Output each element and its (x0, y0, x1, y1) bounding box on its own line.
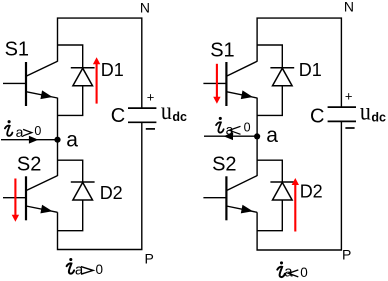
svg-text:0: 0 (96, 262, 104, 277)
wire D2 branch top (left) (58, 160, 83, 182)
diode D2 (left) anode triangle (73, 182, 93, 200)
svg-text:S2: S2 (212, 154, 236, 176)
svg-text:C: C (111, 105, 125, 127)
svg-text:a: a (75, 261, 84, 278)
diode D1 (left) cathode bar (71, 67, 95, 69)
svg-text:+: + (147, 90, 155, 105)
capacitor polarity − (345, 127, 354, 129)
current arrow through D1 (red, up) (96, 63, 98, 103)
diode D2 (left) cathode bar (71, 181, 95, 183)
diode D1 (right) cathode bar (270, 67, 294, 69)
svg-text:dc: dc (371, 110, 386, 124)
transistor S1 (right) emitter arrowhead (241, 90, 253, 99)
svg-text:a: a (66, 129, 78, 152)
transistor S2 (left) emitter lead (26, 206, 58, 212)
node a junction dot (right) (254, 133, 260, 139)
capacitor plate (top) (128, 107, 156, 109)
svg-text:dc: dc (172, 110, 187, 124)
svg-text:C: C (310, 105, 324, 127)
wire D1 branch bottom (left) (58, 86, 83, 116)
phase current arrow i_a (right, pointing left away from node a) (204, 135, 256, 137)
svg-text:D2: D2 (300, 181, 323, 201)
transistor S2 (right) emitter lead (226, 206, 257, 212)
svg-text:N: N (344, 0, 354, 15)
transistor S1 (left) base lead (3, 82, 26, 84)
capacitor plate (top) (328, 106, 356, 108)
svg-text:S2: S2 (17, 154, 41, 176)
node a junction dot (left) (54, 137, 60, 143)
transistor S2 (right) collector lead (226, 176, 257, 191)
current arrow through S2 (red, down) (14, 179, 16, 216)
transistor S1 (left) gate bar (25, 62, 27, 106)
svg-text:N: N (140, 0, 150, 15)
diode D1 (right) anode triangle (273, 68, 293, 86)
capacitor plate (bottom) (128, 121, 156, 123)
transistor S1 (right) collector lead (226, 61, 257, 76)
wire D1 branch top (left) (58, 45, 83, 68)
phase current arrow i_a (left, pointing right into node a) (1, 139, 56, 141)
svg-text:+: + (345, 89, 353, 104)
wire D2 branch bottom (left) (58, 200, 83, 231)
wire P rail: S2 emitter down and across bottom to capacitor (right) (257, 121, 341, 250)
transistor S2 (left) collector lead (26, 176, 58, 191)
label i_a<0 below right circuit (277, 261, 285, 277)
label i_a>0 at node (left) (5, 120, 12, 136)
svg-text:0: 0 (244, 121, 251, 135)
wire P rail: S2 emitter down and across bottom to capacitor (left) (58, 122, 142, 249)
transistor S2 (left) gate bar (25, 176, 27, 220)
current arrow through D2 (red, up) (294, 184, 296, 232)
transistor S2 (right) emitter arrowhead (241, 205, 253, 214)
label i_a<0 at node (right) (216, 117, 224, 133)
svg-text:S1: S1 (210, 40, 234, 62)
svg-text:D1: D1 (299, 60, 322, 80)
capacitor polarity − (146, 128, 155, 130)
svg-text:0: 0 (34, 124, 41, 138)
transistor S2 (left) emitter arrowhead (40, 205, 52, 214)
transistor S1 (left) emitter arrowhead (40, 90, 52, 99)
diode D2 (right) anode triangle (273, 182, 293, 200)
svg-text:u: u (360, 98, 371, 125)
transistor S1 (right) emitter lead (226, 92, 257, 98)
diode D1 (left) anode triangle (73, 68, 93, 86)
transistor S1 (left) emitter lead (26, 92, 58, 98)
svg-text:P: P (342, 247, 351, 263)
svg-text:0: 0 (300, 265, 308, 280)
transistor S1 (left) collector lead (26, 61, 58, 76)
left circuit: wire from node N rail down to S1 collector and across to capacitor (58, 18, 142, 108)
transistor S2 (right) base lead (203, 197, 226, 199)
transistor S1 (right) base lead (203, 82, 226, 84)
diode D2 (right) cathode bar (270, 181, 294, 183)
capacitor plate (bottom) (328, 120, 356, 122)
wire D1 branch bottom (right) (257, 86, 282, 116)
wire mid vertical: S1 emitter to S2 collector through node a (left) (57, 98, 59, 176)
svg-text:P: P (145, 251, 154, 267)
wire mid vertical: S1 emitter to S2 collector through node a (right) (256, 98, 258, 176)
transistor S2 (right) gate bar (225, 176, 227, 220)
current arrow through S1 (red, down) (216, 64, 218, 98)
svg-text:u: u (161, 98, 172, 125)
wire D2 branch top (right) (257, 160, 282, 182)
label i_a>0 below left circuit (67, 258, 75, 274)
svg-text:a: a (266, 124, 278, 147)
svg-text:D1: D1 (101, 60, 124, 80)
wire D2 branch bottom (right) (257, 200, 282, 231)
right circuit: wire from node N rail down to S1 collector and across to capacitor (257, 18, 341, 107)
transistor S2 (left) base lead (3, 197, 26, 199)
svg-text:S1: S1 (5, 39, 29, 61)
svg-text:a: a (16, 124, 24, 140)
svg-text:D2: D2 (100, 183, 123, 203)
transistor S1 (right) gate bar (225, 62, 227, 106)
wire D1 branch top (right) (257, 45, 282, 68)
